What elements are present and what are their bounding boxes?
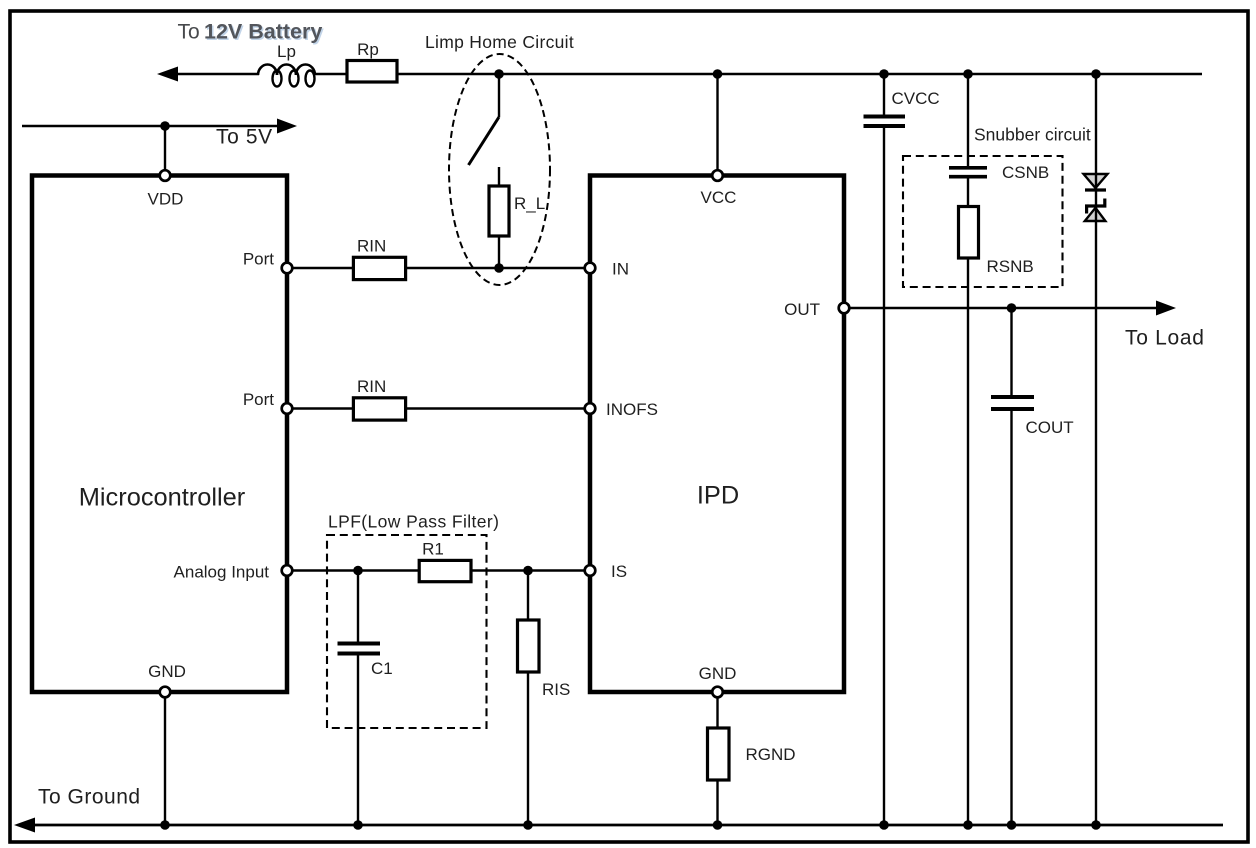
svg-text:RIN: RIN <box>357 237 386 256</box>
snubber dashed box <box>903 156 1063 287</box>
limp home dashed ellipse <box>449 54 550 285</box>
svg-text:Microcontroller: Microcontroller <box>79 484 246 512</box>
LPF dashed box <box>327 535 487 728</box>
capacitor CSNB <box>949 74 1049 207</box>
switch S1 (limp home) <box>469 74 500 165</box>
svg-text:COUT: COUT <box>1026 418 1074 437</box>
svg-text:IN: IN <box>612 260 629 279</box>
resistor RIN 2 <box>353 377 405 420</box>
svg-text:RIN: RIN <box>357 377 386 396</box>
node limp-home bottom <box>494 263 504 273</box>
node rail RIS <box>523 820 533 830</box>
pin IN <box>585 260 629 279</box>
svg-text:RIS: RIS <box>542 680 570 699</box>
wire bottom ground rail <box>14 785 1223 832</box>
svg-text:OUT: OUT <box>784 300 820 319</box>
svg-text:To: To <box>178 21 200 44</box>
svg-text:C1: C1 <box>371 659 393 678</box>
wire To 5V rail <box>22 119 297 149</box>
svg-text:Rp: Rp <box>357 40 379 59</box>
svg-text:12V Battery: 12V Battery <box>204 20 322 44</box>
svg-text:GND: GND <box>148 662 186 681</box>
node limp-home top <box>494 69 504 79</box>
wire top 12V rail <box>157 67 1202 82</box>
svg-text:CSNB: CSNB <box>1002 163 1049 182</box>
pin Analog Input <box>174 563 293 582</box>
capacitor C1 <box>338 571 393 826</box>
resistor RIN 1 <box>353 237 405 280</box>
inductor Lp <box>258 42 315 87</box>
node COUT top <box>1007 303 1017 313</box>
node VCC rail <box>713 69 723 79</box>
svg-text:VDD: VDD <box>148 190 184 209</box>
node rail COUT <box>1007 820 1017 830</box>
capacitor CVCC <box>864 74 940 825</box>
svg-text:LPF(Low Pass Filter): LPF(Low Pass Filter) <box>328 512 499 532</box>
node rail diode <box>1091 820 1101 830</box>
microcontroller block U1 <box>32 176 287 693</box>
capacitor COUT <box>991 308 1074 825</box>
zener diode pair D1 D2 <box>1084 74 1108 825</box>
node CVCC rail <box>879 69 889 79</box>
resistor RGND <box>708 728 796 780</box>
svg-text:RSNB: RSNB <box>987 257 1034 276</box>
wire Port1 to IN <box>294 267 584 269</box>
node CSNB rail <box>963 69 973 79</box>
svg-text:INOFS: INOFS <box>606 400 658 419</box>
node 5V-VDD <box>160 121 170 131</box>
svg-text:To Load: To Load <box>1125 327 1205 350</box>
node rail RSNB <box>963 820 973 830</box>
svg-text:R1: R1 <box>422 540 444 559</box>
pin INOFS <box>585 400 658 419</box>
svg-text:GND: GND <box>699 664 737 683</box>
wire VDD stub <box>164 126 166 169</box>
wire GND MCU to rail <box>164 699 166 826</box>
node rail RGND <box>713 820 723 830</box>
svg-text:Lp: Lp <box>277 42 296 61</box>
resistor RIS <box>518 571 571 826</box>
svg-text:RGND: RGND <box>746 745 796 764</box>
node C1 top <box>353 566 363 576</box>
node rail GND MCU <box>160 820 170 830</box>
svg-text:IPD: IPD <box>697 482 739 510</box>
pin IS <box>585 562 627 581</box>
wire GND IPD to rail <box>716 699 718 826</box>
pin Port 1 <box>243 250 292 274</box>
wire OUT to load <box>851 301 1205 350</box>
net label To 12V Battery <box>178 20 324 46</box>
wire Port2 to INOFS <box>294 407 584 409</box>
svg-text:To 5V: To 5V <box>216 126 273 149</box>
pin VCC <box>701 170 737 207</box>
IPD block U2 <box>590 176 844 693</box>
node rail C1 <box>353 820 363 830</box>
wire Analog Input to IS <box>294 569 584 571</box>
pin Port 2 <box>243 390 292 414</box>
svg-text:R_L: R_L <box>514 194 545 213</box>
resistor R_L <box>489 167 545 268</box>
svg-text:Limp Home Circuit: Limp Home Circuit <box>425 32 574 52</box>
pin OUT <box>784 300 849 319</box>
resistor R1 <box>419 540 471 582</box>
svg-text:Port: Port <box>243 250 274 269</box>
svg-text:CVCC: CVCC <box>892 89 940 108</box>
node rail CVCC <box>879 820 889 830</box>
svg-text:VCC: VCC <box>701 188 737 207</box>
svg-text:Analog Input: Analog Input <box>174 563 270 582</box>
svg-text:To Ground: To Ground <box>38 785 141 808</box>
wire VCC stub <box>716 74 718 169</box>
pin GND IPD <box>699 664 737 697</box>
node RIS top <box>523 566 533 576</box>
pin GND microcontroller <box>148 662 186 697</box>
resistor RSNB <box>959 207 1034 826</box>
resistor Rp <box>347 40 397 82</box>
svg-text:Snubber circuit: Snubber circuit <box>974 125 1091 145</box>
svg-text:IS: IS <box>611 562 627 581</box>
node diode rail <box>1091 69 1101 79</box>
svg-text:Port: Port <box>243 390 274 409</box>
pin VDD <box>148 170 184 208</box>
